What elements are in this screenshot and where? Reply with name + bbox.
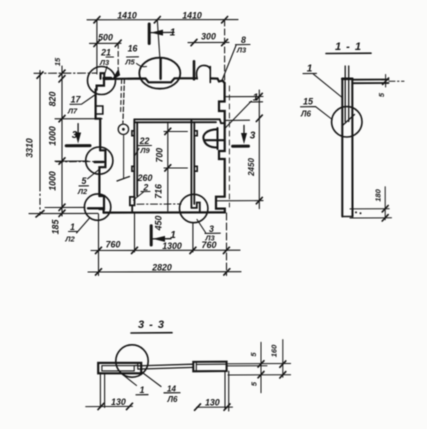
- left plate outer: [98, 363, 141, 373]
- svg-text:Л3: Л3: [236, 46, 247, 55]
- arch detail right edge: [203, 129, 217, 147]
- flag detail: [113, 70, 120, 79]
- column outline: [342, 79, 352, 217]
- top dim line 1410+1410: [87, 19, 238, 21]
- bottom dim row2: [88, 271, 241, 273]
- ticks on left column: [59, 70, 65, 216]
- callout ellipse top: [139, 58, 180, 89]
- left edge tab y106: [96, 106, 103, 114]
- svg-text:180: 180: [374, 188, 383, 201]
- right vertical dims: [260, 342, 262, 393]
- svg-text:1410: 1410: [117, 10, 137, 20]
- svg-text:130: 130: [111, 397, 126, 407]
- top-left corner steps: [96, 79, 104, 90]
- svg-text:21: 21: [100, 47, 111, 57]
- tick: [94, 17, 228, 23]
- 21/L3 leader: [105, 57, 114, 75]
- plate end step: [134, 363, 138, 369]
- cut 1 top: [148, 24, 151, 44]
- svg-text:Л9: Л9: [139, 146, 150, 155]
- svg-text:1: 1: [170, 27, 176, 38]
- dash-dot y204: [137, 203, 181, 205]
- svg-text:760: 760: [201, 240, 216, 250]
- svg-text:Л2: Л2: [77, 187, 88, 196]
- door frame left foot: [130, 197, 135, 213]
- callout circle door bottom: [180, 194, 208, 222]
- cut 3 left: [77, 124, 79, 138]
- thick mark circle2: [95, 161, 104, 164]
- left inner dim column: [61, 66, 63, 216]
- svg-text:16: 16: [128, 43, 138, 53]
- dashed pair from top edge: [123, 79, 125, 123]
- svg-text:130: 130: [205, 397, 220, 407]
- thick corner mark: [104, 77, 111, 80]
- svg-text:1300: 1300: [162, 241, 182, 251]
- dome bump on top edge: [197, 65, 211, 78]
- dim 5: [385, 75, 387, 88]
- svg-text:700: 700: [154, 148, 164, 163]
- title 3-3 underline: [131, 332, 172, 334]
- svg-text:15: 15: [53, 57, 62, 66]
- 260 / 2 leader: [134, 192, 151, 201]
- hinge lines: [164, 131, 187, 133]
- svg-text:1: 1: [253, 93, 259, 104]
- svg-text:1: 1: [170, 230, 176, 241]
- svg-text:Л2: Л2: [64, 235, 75, 244]
- right plate: [193, 362, 226, 372]
- door frame top double line: [134, 119, 219, 122]
- door frame left double line: [134, 119, 137, 196]
- svg-text:1: 1: [307, 64, 313, 75]
- svg-text:5: 5: [377, 92, 386, 97]
- top-left tab above edge: [101, 73, 105, 79]
- panel top edge right part: [211, 78, 225, 83]
- svg-text:Л6: Л6: [167, 395, 178, 404]
- dim left 130: [86, 405, 133, 407]
- dim right 130: [197, 406, 233, 408]
- svg-text:17: 17: [71, 95, 82, 105]
- svg-text:760: 760: [106, 240, 121, 250]
- right side dim 2450: [258, 90, 260, 209]
- svg-text:2450: 2450: [247, 158, 256, 177]
- left edge upper: [96, 90, 101, 151]
- svg-text:3: 3: [72, 130, 78, 141]
- svg-text:300: 300: [201, 32, 216, 42]
- svg-text:260: 260: [137, 173, 153, 183]
- dim 500: [90, 42, 122, 44]
- extension y213.4: [29, 212, 98, 214]
- callout circle 3-3: [116, 345, 148, 377]
- bottom extensions/dims: [350, 208, 389, 210]
- centerline below target: [123, 136, 125, 179]
- frame tabs left: [132, 131, 134, 136]
- right edge with notches: [216, 83, 225, 212]
- callout circle C1: [88, 67, 116, 95]
- 1 right edge leader: [225, 101, 263, 128]
- title 1-1: [326, 52, 371, 54]
- svg-text:3: 3: [250, 131, 256, 142]
- svg-text:2820: 2820: [151, 263, 172, 273]
- bottom-left corner: [102, 209, 104, 213]
- 22/L9 leader: [135, 146, 152, 156]
- svg-text:1 - 1: 1 - 1: [335, 41, 362, 53]
- svg-text:8: 8: [241, 35, 246, 45]
- dash-dot y162 left: [56, 161, 95, 163]
- svg-text:1000: 1000: [48, 126, 58, 146]
- svg-text:5: 5: [82, 176, 87, 186]
- left plate inner: [102, 366, 134, 371]
- svg-text:500: 500: [98, 32, 113, 42]
- svg-text:15: 15: [303, 97, 314, 107]
- svg-text:716: 716: [153, 184, 163, 199]
- leaders: [303, 73, 342, 97]
- svg-text:Л5: Л5: [124, 58, 135, 67]
- bottom extension verticals: [98, 214, 100, 276]
- 8/L3 leader: [222, 45, 251, 82]
- far-left 3310 dim: [39, 71, 41, 186]
- extension y207.4: [45, 206, 85, 208]
- panel top edge with recess: [104, 78, 196, 82]
- callout circle C3: [84, 194, 110, 220]
- cut 1 bottom: [150, 226, 153, 245]
- leaders: [120, 372, 161, 387]
- thick 185 mark: [88, 207, 103, 209]
- inner anchor plate: [345, 66, 349, 122]
- svg-text:160: 160: [270, 344, 279, 357]
- svg-text:2: 2: [142, 183, 148, 193]
- panel bottom edge: [104, 211, 225, 213]
- callout circle 1-1: [332, 107, 362, 137]
- svg-text:1410: 1410: [182, 10, 202, 20]
- svg-text:5: 5: [250, 381, 259, 386]
- extension y161: [55, 160, 88, 162]
- svg-text:3310: 3310: [25, 138, 35, 158]
- door frame right double line: [191, 119, 194, 207]
- dashed vertical right of edge: [228, 86, 230, 207]
- svg-text:820: 820: [48, 92, 58, 107]
- 17/L7 leader: [70, 95, 96, 105]
- anchor bar in ellipse: [159, 59, 161, 79]
- svg-text:450: 450: [154, 216, 164, 232]
- svg-text:Л6: Л6: [300, 109, 311, 118]
- extension dash-dot y73: [34, 72, 96, 74]
- svg-text:185: 185: [51, 220, 61, 235]
- extension verticals top: [96, 20, 98, 74]
- frame tabs right: [194, 131, 197, 136]
- target circle: [118, 124, 128, 134]
- svg-text:Л3: Л3: [99, 58, 110, 67]
- thin web: [138, 364, 193, 369]
- cut 3 right: [243, 125, 245, 138]
- callout circle C2: [86, 147, 113, 174]
- 1/L2 leader: [69, 218, 91, 234]
- door frame right bottom notch: [191, 203, 199, 212]
- bottom dim row1: [91, 249, 240, 251]
- svg-text:14: 14: [167, 384, 176, 393]
- svg-text:Л7: Л7: [67, 106, 78, 115]
- left edge tab in circle3: [99, 196, 104, 209]
- anchor bar right: [193, 61, 196, 79]
- left edge bump in circle2: [99, 150, 105, 196]
- svg-text:1: 1: [70, 222, 75, 232]
- extension y118.7: [55, 118, 102, 120]
- svg-text:3 - 3: 3 - 3: [138, 319, 165, 331]
- 5/L2 leader: [79, 170, 99, 186]
- svg-text:1: 1: [139, 385, 144, 395]
- supports: [100, 373, 104, 407]
- inner door dim line: [167, 123, 169, 212]
- svg-text:5: 5: [249, 352, 258, 357]
- 16/L5 leader: [127, 56, 139, 58]
- 3/L3 bottom leader: [197, 220, 220, 234]
- flange: [352, 80, 388, 84]
- right extensions: [228, 363, 291, 365]
- svg-text:1000: 1000: [48, 171, 58, 191]
- svg-text:22: 22: [139, 136, 150, 146]
- dim 300: [188, 41, 229, 43]
